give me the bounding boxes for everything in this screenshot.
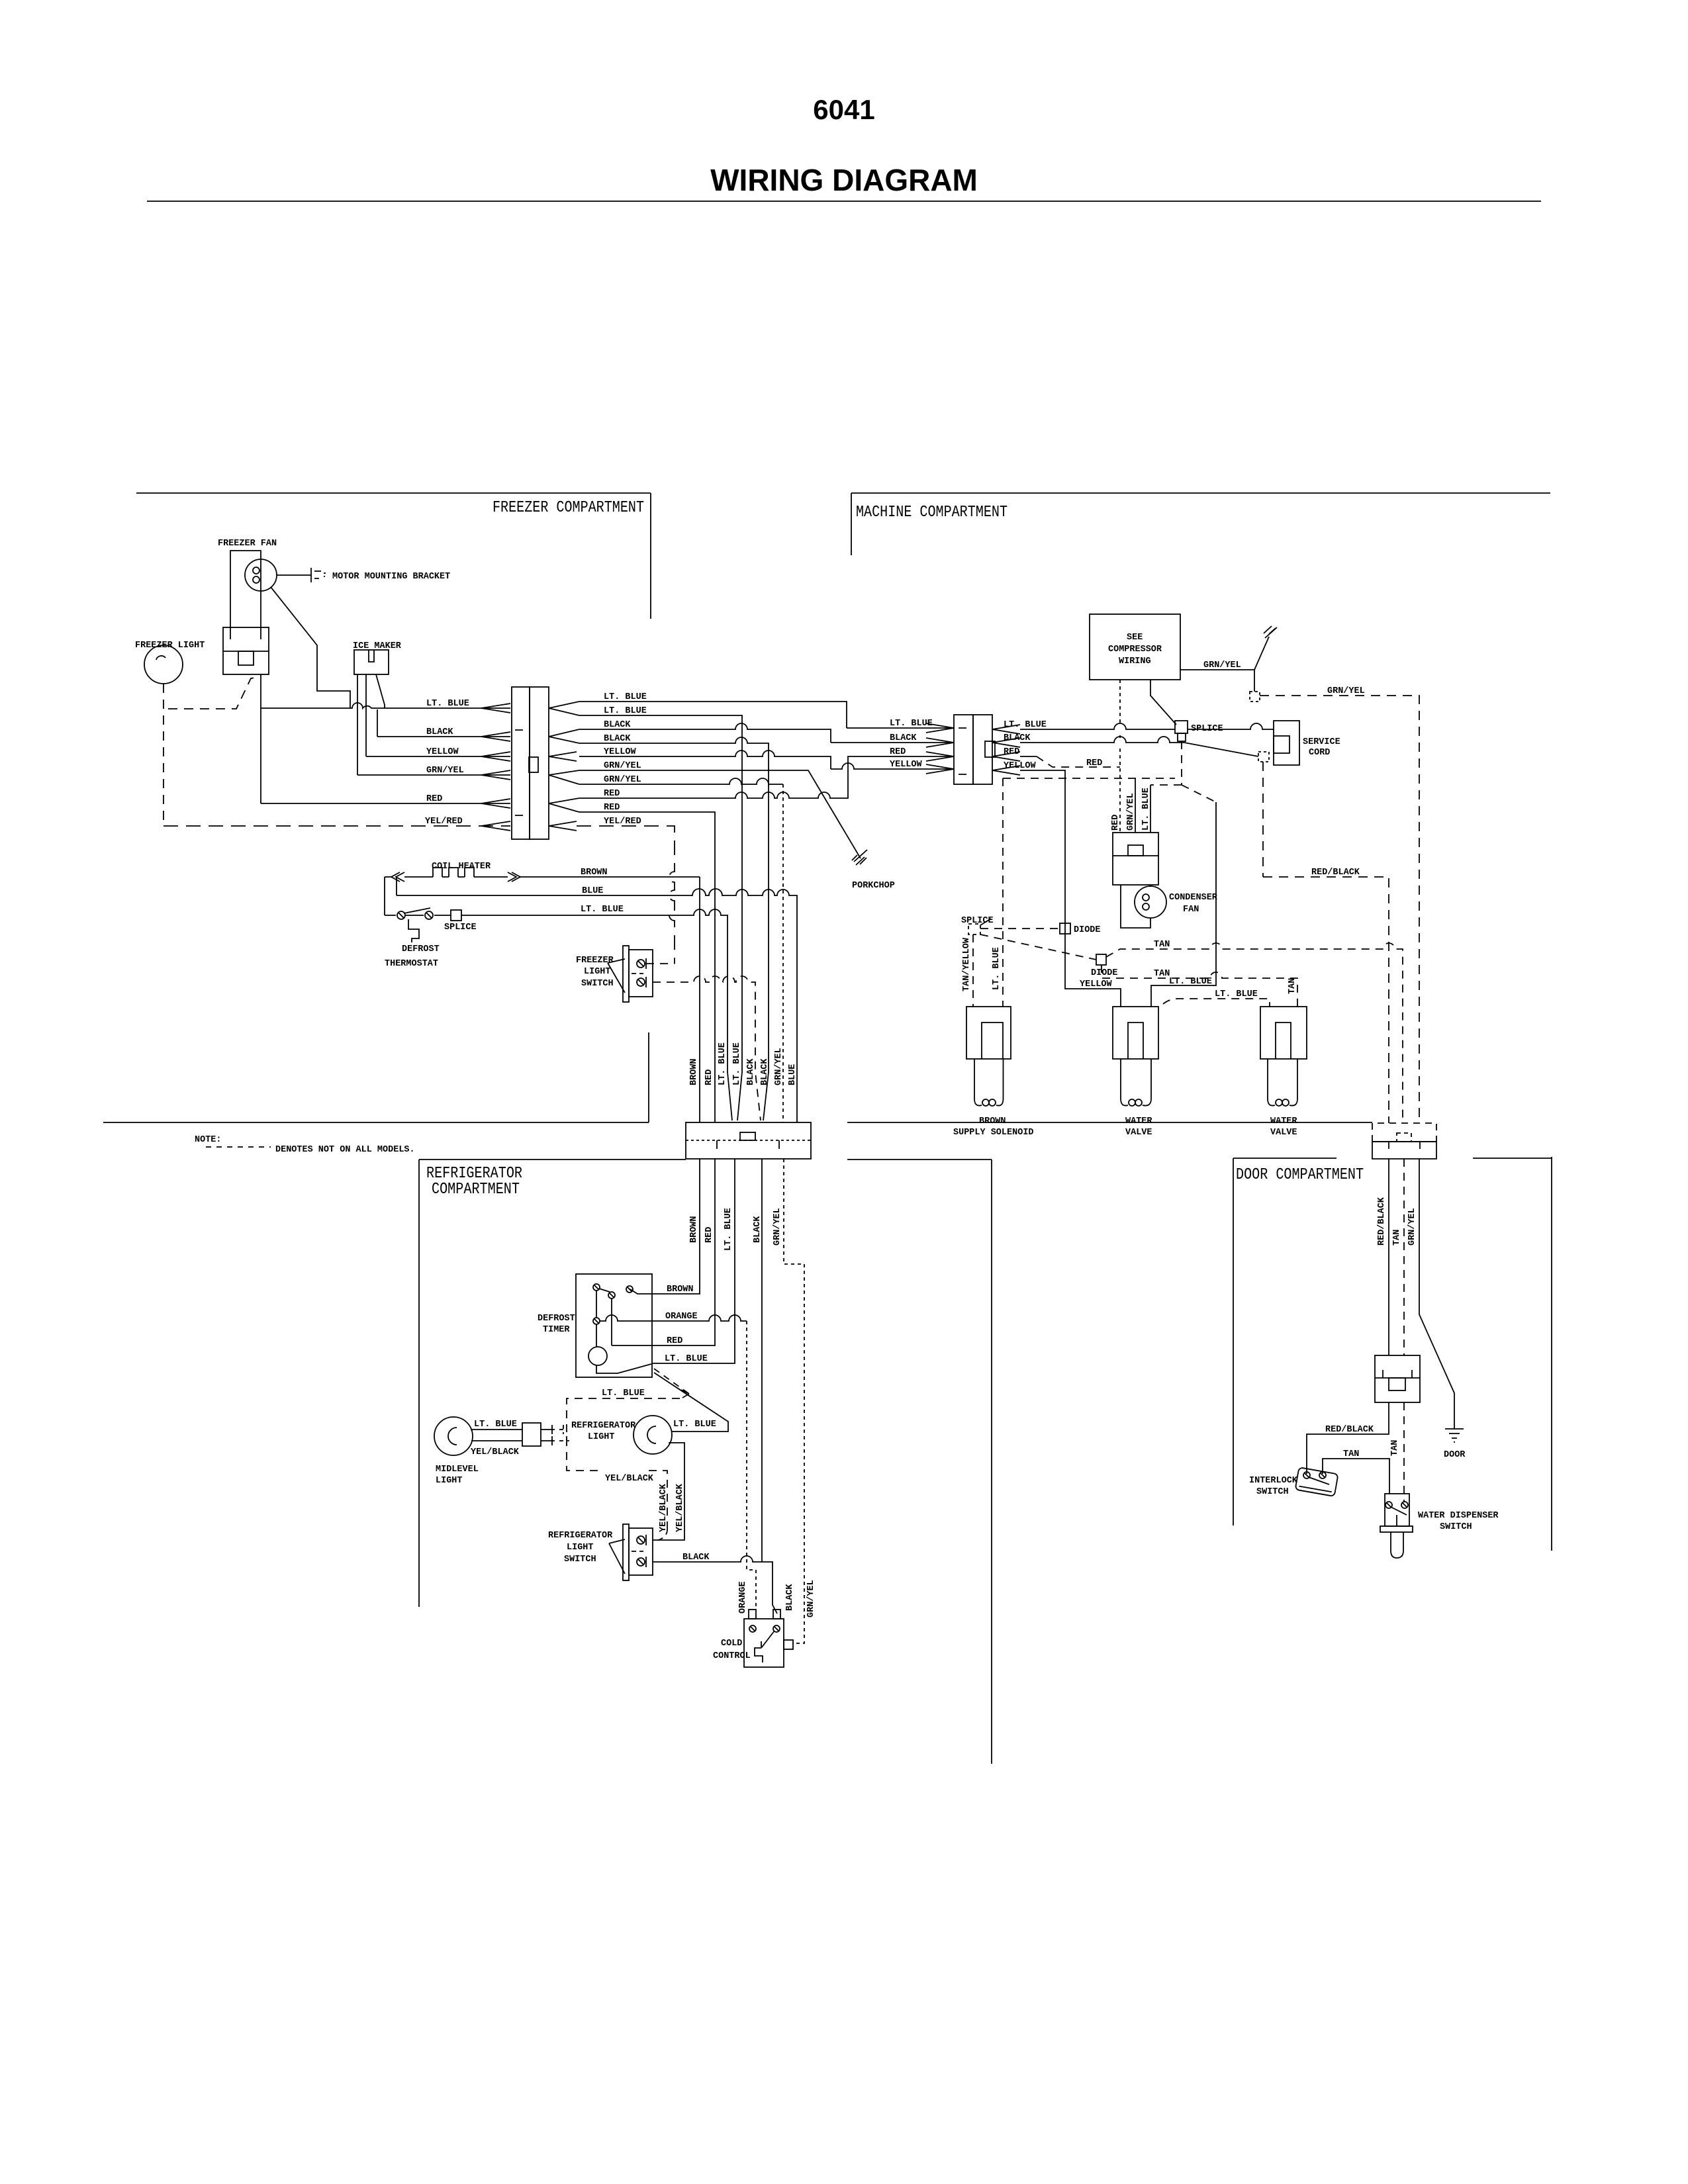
svg-text:GRN/YEL: GRN/YEL [806,1580,816,1617]
valve1 inner slot [1128,1023,1143,1059]
service cord block [1274,721,1299,765]
svg-text:LT. BLUE: LT. BLUE [732,1042,742,1085]
dispenser base [1380,1526,1413,1532]
wire fan diagonal to ice maker [271,587,350,708]
timer terminal 3 [626,1286,633,1293]
coil heater chevron left [391,872,404,882]
relay midline [1113,855,1158,856]
door connector notch [1397,1133,1411,1142]
valve1 legs [1121,1059,1151,1099]
svg-text:SPLICE: SPLICE [444,923,477,933]
compressor info box [1090,614,1180,680]
svg-text:BROWN: BROWN [581,868,608,878]
svg-text:RED: RED [426,794,442,804]
midlevel connector box [522,1423,541,1446]
wire yel/red stub to switch [646,963,675,964]
door connector ticks [1389,1142,1420,1149]
wire red machine solid part [1020,756,1037,757]
wire midlevel pair [471,1430,522,1441]
svg-text:RED/BLACK: RED/BLACK [1377,1197,1387,1246]
svg-text:YEL/RED: YEL/RED [425,817,463,827]
ice maker lead yellow [365,674,367,756]
svg-text:YELLOW: YELLOW [604,747,637,757]
wire brown coil heater [385,876,700,878]
svg-text:TAN: TAN [1392,1230,1402,1246]
svg-text:DENOTES NOT ON ALL MODELS.: DENOTES NOT ON ALL MODELS. [275,1145,415,1155]
cold control side tab [784,1640,793,1649]
svg-text:TAN: TAN [1154,940,1170,950]
ice maker box [354,650,389,674]
water valve 2 body [1260,1007,1307,1059]
svg-text:BLACK: BLACK [604,720,631,730]
wire red to connector [261,803,510,804]
fan motor coil loops [253,567,259,574]
terminal box ticks [230,627,261,639]
machine compartment left border [851,493,852,555]
svg-text:SUPPLY SOLENOID: SUPPLY SOLENOID [953,1128,1034,1138]
wire red trunk2 [579,812,715,1122]
wire brown drop [699,877,700,1122]
wire black to connector [377,736,510,737]
svg-text:TAN: TAN [1390,1440,1400,1456]
svg-text:REFRIGERATOR: REFRIGERATOR [571,1421,636,1431]
relay notch [1128,845,1143,856]
wire lt.blue relay feed [1150,785,1151,832]
cold control arm [761,1631,774,1648]
wire lt.blue down to valve1 [1151,802,1216,1007]
mid connector midline [1375,1377,1420,1379]
machine connector entry flags [926,723,954,774]
svg-text:COMPARTMENT: COMPARTMENT [432,1181,520,1199]
svg-text:LT. BLUE: LT. BLUE [602,1388,645,1398]
svg-text:WATER: WATER [1125,1116,1152,1126]
wire lt.blue below connector [652,1159,735,1363]
svg-text:BLACK: BLACK [746,1058,756,1085]
door connector dashed top [1372,1123,1436,1142]
valve1 coil [1121,1099,1128,1106]
refr switch terminals [637,1536,645,1544]
wire yel/red dashed trunk [577,826,675,964]
svg-text:BROWN: BROWN [667,1285,694,1295]
svg-text:MIDLEVEL: MIDLEVEL [436,1465,479,1475]
freezer harness connector block [512,687,530,839]
svg-text:SWITCH: SWITCH [581,979,614,989]
svg-text:GRN/YEL: GRN/YEL [1126,793,1136,831]
diode2 square [1096,954,1106,965]
svg-text:BROWN: BROWN [689,1216,699,1243]
wire yel/black solid from light [653,1443,684,1540]
svg-text:RED: RED [604,789,620,799]
splice pointer [980,919,991,925]
svg-text:CONTROL: CONTROL [713,1651,751,1661]
wire red/black dashed to door [1263,762,1389,1123]
svg-text:DOOR: DOOR [1444,1450,1466,1460]
defrost thermostat arm [404,908,430,913]
machine harness connector block [954,715,973,784]
svg-text:THERMOSTAT: THERMOSTAT [385,959,438,969]
wire lt.blue trunk1 [579,702,847,728]
coil heater chevron right [508,872,520,882]
defrost thermostat pointer [408,919,419,942]
ice maker lead grn/yel [357,674,358,775]
svg-text:WATER: WATER [1270,1116,1297,1126]
condenser fan coils [1143,894,1149,901]
svg-text:LT. BLUE: LT. BLUE [581,905,624,915]
svg-text:GRN/YEL: GRN/YEL [604,775,641,785]
wire tan1 dashed [1106,943,1403,1123]
midlevel connector sockets dashed [559,1425,569,1445]
freezer light bulb [144,645,183,684]
svg-text:PORKCHOP: PORKCHOP [852,881,895,891]
svg-text:CORD: CORD [1309,748,1330,758]
freezer compartment right border lower [648,1032,649,1122]
valve2 coil [1268,1099,1275,1106]
svg-text:LIGHT: LIGHT [588,1432,615,1442]
freezer light switch plate [623,946,629,1002]
svg-text:WIRING: WIRING [1119,657,1151,666]
svg-text:BLACK: BLACK [604,734,631,744]
svg-text:GRN/YEL: GRN/YEL [1203,660,1241,670]
wire black trunk1 [579,723,831,743]
wire grn/yel from compressor [1180,670,1254,692]
svg-text:ORANGE: ORANGE [665,1312,698,1322]
interlock arm [1309,1477,1329,1484]
title underline [147,201,1541,202]
wire lt.blue defrost [385,909,732,1120]
timer switch arm [599,1289,610,1292]
machine splice square dashed [968,924,980,934]
svg-text:YEL/BLACK: YEL/BLACK [675,1483,685,1532]
svg-text:YEL/BLACK: YEL/BLACK [659,1483,669,1532]
svg-text:BLUE: BLUE [788,1064,798,1085]
wire red below connector [612,1159,715,1345]
switch terminals [637,960,645,968]
connector ticks [515,730,523,815]
compressor relay block [1113,833,1158,885]
svg-text:GRN/YEL: GRN/YEL [1327,686,1365,696]
freezer compartment top border [136,492,651,494]
wire grn/yel dashed to door [1260,696,1419,1123]
svg-text:YELLOW: YELLOW [426,747,459,757]
door compartment right border [1551,1157,1552,1551]
svg-text:YEL/RED: YEL/RED [604,817,641,827]
wire grn/yel relay feed [1135,778,1136,832]
refrigerator compartment right border [991,1160,992,1764]
svg-text:RED: RED [1111,815,1121,831]
wire tan dashed lower [1403,1402,1405,1502]
svg-text:TAN/YELLOW: TAN/YELLOW [962,937,972,991]
wire red trunk1 [579,756,954,798]
svg-text:COIL HEATER: COIL HEATER [432,862,491,872]
svg-text:RED: RED [604,803,620,813]
svg-text:DEFROST: DEFROST [402,944,440,954]
wire splice2 to diode2 dashed [980,934,1096,960]
wire grn/yel trunk2 [579,778,783,784]
door connector body [1372,1142,1436,1159]
connector notch [529,757,538,772]
door compartment left border [1233,1158,1234,1525]
wire compressor dotted lead [1119,680,1121,832]
door ground symbol [1445,1429,1464,1442]
door connector midline [1372,1141,1436,1142]
svg-text:VALVE: VALVE [1270,1128,1297,1138]
svg-text:RED: RED [1004,747,1019,757]
refrigerator compartment top border right [847,1159,992,1160]
refrigerator light bulb [633,1416,672,1454]
svg-text:SEE: SEE [1127,633,1143,643]
wire lt.blue dashed to solenoid [1002,778,1004,1007]
service cord notch [1274,736,1289,753]
diode1 square [1060,923,1070,934]
wire freezer light dashed drop [163,684,164,826]
svg-text:TAN: TAN [1154,969,1170,979]
svg-text:RED: RED [704,1069,714,1085]
dispenser stem [1396,1515,1397,1526]
svg-text:RED: RED [890,747,906,757]
svg-text:TAN: TAN [1343,1449,1359,1459]
timer terminal 4 [593,1318,600,1324]
refr switch pointer [609,1539,625,1574]
svg-text:LT. BLUE: LT. BLUE [718,1042,727,1085]
svg-text:BLACK: BLACK [426,727,453,737]
wire red machine dashed [1037,756,1120,767]
freezer compartment right border upper [650,493,651,619]
svg-text:CONDENSER: CONDENSER [1169,893,1218,903]
wire lt.blue trunk2 [579,715,742,1120]
svg-text:6041: 6041 [813,94,874,125]
door compartment top border right [1473,1158,1552,1159]
ice maker lead diagonal [376,674,385,708]
wire yel/red dashed to connector [164,825,510,827]
svg-text:LIGHT: LIGHT [567,1543,594,1553]
refrigerator light socket arc [647,1426,656,1443]
svg-text:SWITCH: SWITCH [1256,1487,1289,1497]
wire red/black to interlock [1307,1402,1389,1474]
wire fan to bracket [277,574,311,576]
svg-text:BLACK: BLACK [1004,733,1031,743]
wire black into machine connector [831,742,954,743]
coil splice square [451,910,461,921]
dashed arrowhead [681,1390,689,1398]
svg-text:RED: RED [1086,758,1102,768]
svg-text:MACHINE COMPARTMENT: MACHINE COMPARTMENT [856,504,1008,522]
svg-text:LT. BLUE: LT. BLUE [1215,989,1258,999]
timer terminal 2 [608,1292,615,1298]
wire lt.blue into machine connector [847,727,954,729]
machine connector ticks [959,728,966,774]
wire tan/yellow dashed to solenoid [972,934,974,1007]
wire orange [600,1315,747,1321]
svg-text:YELLOW: YELLOW [890,760,923,770]
dispenser terminals [1385,1502,1392,1508]
wire yellow trunk [579,751,954,769]
svg-text:WIRING DIAGRAM: WIRING DIAGRAM [710,163,978,197]
mid connector ticks [1383,1370,1412,1378]
svg-text:FREEZER COMPARTMENT: FREEZER COMPARTMENT [492,499,644,517]
svg-text:DIODE: DIODE [1074,925,1101,935]
refr light switch plate [623,1524,629,1580]
freezer light switch body [629,950,653,997]
dispenser arm [1391,1507,1407,1515]
refrigerator compartment left border [418,1160,420,1607]
wire splice2 to diode1 dashed [980,928,1060,929]
dashed distribution line [1003,778,1175,779]
wire blue [397,889,797,1122]
cold control terminal lugs [749,1610,756,1619]
svg-text:RED: RED [704,1227,714,1243]
refr light switch body [629,1528,653,1575]
splice lower square [1178,733,1186,741]
interlock terminals [1303,1472,1310,1479]
wire black below connector [761,1159,763,1562]
body connector midline [686,1140,811,1141]
svg-text:LT. BLUE: LT. BLUE [426,699,469,709]
connector flags right side [549,702,579,831]
svg-text:MOTOR MOUNTING BRACKET: MOTOR MOUNTING BRACKET [332,572,450,582]
wire fan-box vertical riser [260,674,261,803]
freezer fan terminal box [223,627,269,674]
wire brown below connector [630,1159,700,1294]
svg-text:COLD: COLD [721,1639,742,1649]
defrost timer box [576,1274,652,1377]
wire tan dashed door [1403,1159,1405,1355]
supply solenoid body [966,1007,1011,1059]
condenser fan circle [1135,886,1166,918]
wire relay to condenser fan [1121,885,1150,928]
motor mounting bracket symbol [311,568,326,582]
svg-text:LT. BLUE: LT. BLUE [1169,977,1212,987]
timer motor circle [588,1347,607,1365]
machine connector notch [985,741,995,757]
solenoid legs [974,1059,1004,1099]
valve2 legs [1268,1059,1297,1099]
svg-text:RED/BLACK: RED/BLACK [1311,868,1360,878]
svg-text:BLACK: BLACK [785,1584,795,1611]
wire lt.blue dashed to midlevel [567,1398,680,1529]
svg-text:GRN/YEL: GRN/YEL [773,1208,782,1246]
svg-text:YELLOW: YELLOW [1004,761,1037,771]
svg-text:SWITCH: SWITCH [1440,1522,1472,1532]
svg-text:LIGHT: LIGHT [584,967,611,977]
timer internal wires [596,1291,651,1373]
wire black machine [1020,737,1258,756]
svg-text:LT. BLUE: LT. BLUE [665,1354,708,1364]
cold control terminals [749,1625,756,1632]
svg-text:SERVICE: SERVICE [1303,737,1340,747]
svg-text:LT. BLUE: LT. BLUE [673,1420,716,1430]
wire grn/yel trunk1 to porkchop [579,770,861,858]
svg-text:LIGHT: LIGHT [436,1476,463,1486]
mid connector notch [1389,1378,1405,1390]
svg-text:FREEZER LIGHT: FREEZER LIGHT [135,641,205,651]
wire lt.blue to connector [261,703,510,708]
wire grn/yel below connector [784,1159,804,1643]
switch pointer lines [608,959,625,993]
svg-text:LT. BLUE: LT. BLUE [474,1420,517,1430]
cold control bellows [755,1641,763,1662]
interlock switch body [1295,1467,1338,1496]
wire black dashed from switch [653,976,761,1120]
svg-text:LT. BLUE: LT. BLUE [1004,720,1047,730]
machine connector exit flags [992,725,1020,775]
svg-text:BLACK: BLACK [760,1058,770,1085]
svg-text:LT. BLUE: LT. BLUE [992,947,1002,990]
wire red/black door [1388,1159,1389,1355]
terminal box midline [223,651,269,652]
svg-text:SWITCH: SWITCH [564,1555,596,1565]
body connector notch [740,1132,755,1140]
svg-text:LT. BLUE: LT. BLUE [604,706,647,716]
main body connector block [686,1122,811,1159]
wire lt.blue dashed valve1 to valve2 [1163,999,1270,1007]
svg-text:TAN: TAN [1288,978,1297,994]
svg-text:DIODE: DIODE [1091,968,1118,978]
chassis ground diagonal [1254,637,1269,670]
grn/yel bullet connector [1250,692,1260,702]
connector flags left side [481,704,510,831]
svg-text:BLACK: BLACK [753,1216,763,1243]
red/black bullet connector [1258,752,1269,762]
wire freezer light dashed to fan box [168,677,259,709]
wire yel/black dashed curve to switch [653,1529,667,1540]
freezer fan frame [230,551,261,627]
svg-text:REFRIGERATOR: REFRIGERATOR [426,1165,522,1183]
svg-text:REFRIGERATOR: REFRIGERATOR [548,1531,613,1541]
midlevel light socket arc [448,1428,457,1445]
dispenser plunger [1391,1532,1403,1558]
svg-text:GRN/YEL: GRN/YEL [426,766,464,776]
svg-text:DEFROST: DEFROST [538,1314,575,1324]
solenoid inner slot [982,1023,1003,1059]
wire grn/yel door to ground [1419,1159,1454,1429]
solenoid coil [974,1099,982,1106]
cold control body [744,1619,784,1667]
wire black from switch [653,1556,777,1614]
wire lt.blue to splice and service cord [1020,723,1274,729]
wire black riser [377,709,378,737]
svg-text:YELLOW: YELLOW [1080,979,1113,989]
svg-text:VALVE: VALVE [1125,1128,1152,1138]
refrigerator compartment top border left [419,1159,686,1160]
wire yellow machine [1020,770,1121,1007]
door mid connector body [1375,1355,1420,1402]
wire lt.blue dashed diag [654,1369,689,1394]
svg-text:FAN: FAN [1183,905,1199,915]
timer terminal 1 [593,1284,600,1291]
svg-text:BROWN: BROWN [689,1058,699,1085]
svg-text:ORANGE: ORANGE [738,1581,748,1614]
freezer light filament [156,656,165,660]
svg-text:YEL/BLACK: YEL/BLACK [471,1447,520,1457]
svg-text:SPLICE: SPLICE [1191,724,1223,734]
wire compressor lead to splice [1150,680,1176,725]
coil heater left link [385,877,397,915]
svg-text:RED/BLACK: RED/BLACK [1325,1425,1374,1435]
freezer fan motor circle [245,559,277,591]
svg-text:YEL/BLACK: YEL/BLACK [605,1474,654,1484]
freezer compartment bottom border [103,1122,649,1123]
svg-text:INTERLOCK: INTERLOCK [1249,1476,1298,1486]
valve2 inner slot [1276,1023,1291,1059]
svg-text:BROWN: BROWN [979,1116,1006,1126]
ice maker notch [369,650,374,662]
splice square [1175,721,1188,733]
midlevel light bulb [434,1417,473,1455]
wire yellow to connector [366,756,510,757]
chassis ground hatch [1264,626,1277,638]
svg-text:LT. BLUE: LT. BLUE [724,1208,733,1251]
body connector ticks [717,1140,779,1149]
